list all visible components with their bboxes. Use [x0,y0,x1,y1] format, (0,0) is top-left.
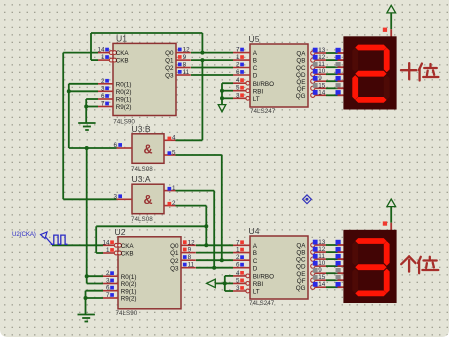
wire U3:B output down to U2.R0 inputs [86,148,88,276]
svg-text:9: 9 [183,54,187,61]
svg-text:4: 4 [236,77,240,84]
svg-text:LT: LT [253,96,260,103]
svg-text:B: B [253,250,257,257]
junction U1.R0(2) [67,89,71,93]
svg-text:U2: U2 [115,227,126,237]
power wire above tens display [390,13,392,29]
U5 pin QC 11 [311,65,315,69]
U3:B output pin 6 [117,147,133,149]
U5 pin QF 15 [311,86,315,90]
svg-text:7: 7 [236,47,240,54]
pin stub ones display power [390,223,392,231]
svg-text:CKB: CKB [116,58,129,65]
wire U1.Q1 to U5.B [191,59,233,61]
U4 pin A 7 [233,244,250,246]
svg-text:R0(2): R0(2) [116,89,132,96]
svg-text:7: 7 [236,239,240,246]
svg-text:6: 6 [113,142,117,149]
svg-text:U3:A: U3:A [132,174,151,184]
label ones digit (ge wei) [401,256,438,273]
svg-text:QD: QD [296,264,306,271]
U4 pin B 1 [233,252,250,254]
origin node marker (blue diamond) [303,195,312,204]
wire U2.Q0 to U4.A [196,244,233,246]
junction U2.Q3 branch to U3:A.1 [212,266,216,270]
ground below U1 [78,122,95,124]
U1 pin CKA 14 [98,52,113,54]
U2 pin R0(2) 3 [103,283,118,285]
tens display pin stubs [338,52,345,54]
wire U4 BI/RBO,RBI,LT tie to power [224,276,226,291]
wire U3:B input 5 from U2.Q2 [176,154,222,156]
svg-text:15: 15 [318,274,326,281]
U5 pin C 2 [233,67,250,69]
7-segment display tens (shows 2) [343,36,396,109]
U4 pin LT 3 [233,290,250,292]
svg-text:9: 9 [318,267,322,274]
U1 pin CKB 1 [98,59,113,61]
wire U2.Q2 to U4.C [196,259,233,261]
U4 pin QC 11 [311,257,315,261]
wire U5 BI/RBO,RBI,LT tie to power [221,83,223,104]
U5 pin LT 3 [233,97,250,99]
svg-text:3: 3 [113,193,117,200]
svg-text:4: 4 [172,135,176,142]
U4 pin QB 12 [311,250,315,254]
U5 pin A 7 [233,52,250,54]
svg-text:14: 14 [102,239,110,246]
svg-text:CKA: CKA [116,50,130,57]
svg-text:74LS08: 74LS08 [131,166,153,173]
svg-text:2: 2 [101,78,105,85]
svg-text:2: 2 [106,270,110,277]
junction U5.RBI tie [220,89,224,93]
wire U2.R9(1)/R9(2) to ground [85,291,87,315]
junction U1.R9(2) [84,105,88,109]
U2 pin R9(2) 7 [103,297,118,299]
svg-text:QA: QA [296,243,306,250]
wire U1.R9(1)/R9(2) to ground [85,99,87,123]
U2 pin CKA 14 [103,244,118,246]
U5 pin D 6 [233,74,250,76]
svg-text:R9(1): R9(1) [116,97,132,104]
U5 pin QD 10 [311,72,315,76]
svg-text:1: 1 [236,54,240,61]
svg-text:Q3: Q3 [170,265,179,272]
svg-text:5: 5 [172,149,176,156]
svg-text:R9(2): R9(2) [116,104,132,111]
U1 pin Q3 11 [176,74,191,76]
svg-text:Q2: Q2 [170,258,179,265]
pin stub tens display power [390,29,392,37]
AND gate U3:B body [132,134,164,164]
U1 pin Q2 8 [176,67,191,69]
svg-text:4: 4 [236,270,240,277]
svg-text:12: 12 [318,54,326,61]
svg-text:14: 14 [318,281,326,288]
svg-text:15: 15 [318,82,326,89]
svg-text:9: 9 [318,75,322,82]
svg-text:8: 8 [188,254,192,261]
wire U2.R0(1)/R0(2) from U3:A output [87,275,103,277]
svg-text:D: D [253,265,258,272]
counter U2 74LS90 body [118,237,181,309]
AND gate U3:A body [132,184,164,214]
svg-text:14: 14 [318,89,326,96]
svg-text:U4: U4 [249,226,260,236]
U5 pin BI/RBO 4 [233,82,250,84]
wire U1.Q2 to U5.C [191,67,233,69]
svg-text:LT: LT [253,289,260,296]
svg-text:11: 11 [183,69,190,76]
svg-text:U2(CKA): U2(CKA) [12,231,36,238]
svg-text:11: 11 [188,262,195,269]
svg-text:Q0: Q0 [165,50,174,57]
svg-text:12: 12 [318,246,326,253]
svg-text:2: 2 [236,62,240,69]
U3:B input pin 5 [164,154,176,156]
U1 pin R9(2) 7 [98,106,113,108]
wire U3:A input 2 from U2.Q0 [176,205,207,207]
svg-text:Q2: Q2 [165,65,174,72]
counter U1 74LS90 body [113,43,176,115]
svg-text:&: & [143,143,152,157]
svg-text:QG: QG [296,93,306,100]
svg-text:10: 10 [318,260,326,267]
svg-text:BI/RBO: BI/RBO [253,81,274,88]
junction Q1 branch to U3:B pin4 [200,58,204,62]
svg-text:QB: QB [296,250,305,257]
decoder U4 74LS247 body [250,236,308,299]
U5 pin RBI 5 [233,90,250,92]
junction U3:B output branch to U2 reset [85,146,89,150]
junction Q0/CKB-feedback [200,51,204,55]
wire U1.Q1 down to U3:B input 4 [201,60,203,140]
wires U5 outputs QA-QG to tens display [326,52,338,54]
ground below U2 [78,314,95,316]
U2 pin R0(1) 2 [103,275,118,277]
label tens digit (shi wei) [401,63,438,80]
svg-text:74LS08: 74LS08 [131,216,153,223]
U4 pin D 6 [233,267,250,269]
wire U3:A input 1 from U2.Q3 [176,190,215,192]
wire to power arrow left of U4 [215,282,225,284]
power arrow (down) feeding U5 LT/RBI/BI [218,105,226,112]
7-segment display ones (shows 3) [343,230,396,303]
svg-text:R9(2): R9(2) [121,296,137,303]
svg-text:6: 6 [101,93,105,100]
wire U2.Q3 to U4.D [196,267,233,269]
svg-text:6: 6 [236,69,240,76]
svg-text:D: D [253,73,258,80]
svg-text:RBI: RBI [253,281,264,288]
clock input wire to U2.CKA [52,244,103,246]
U2 pin Q2 8 [181,259,196,261]
svg-text:7: 7 [106,292,110,299]
svg-text:Q3: Q3 [165,73,174,80]
U4 pin RBI 5 [233,282,250,284]
svg-text:3: 3 [101,85,105,92]
logic state square ones power [383,221,387,225]
wire U1.CKB stub row [91,59,98,61]
U1 pin R9(1) 6 [98,98,113,100]
svg-text:6: 6 [106,285,110,292]
svg-text:U1: U1 [116,34,127,44]
U4 pin QD 10 [311,264,315,268]
svg-text:13: 13 [318,47,326,54]
svg-text:1: 1 [172,185,176,192]
clock waveform icon [51,235,68,244]
wire U3:A output to U1.CKA [63,198,116,200]
svg-text:QC: QC [296,257,306,264]
ones display pin stubs [338,244,345,246]
U2 pin Q1 9 [181,252,196,254]
junction U4.RBI tie [223,281,227,285]
wire U1.CKB feedback from Q0 (top horizontal) [91,32,202,34]
svg-text:R9(1): R9(1) [121,288,137,295]
svg-text:12: 12 [183,47,191,54]
wire U1.Q0 to U5.A [191,52,233,54]
svg-text:10: 10 [318,68,326,75]
U5 pin QB 12 [311,58,315,62]
wire U2.Q1 to U4.B [196,252,233,254]
svg-text:11: 11 [318,253,325,260]
svg-text:C: C [253,65,258,72]
U2 pin Q3 11 [181,267,196,269]
svg-text:5: 5 [236,85,240,92]
svg-text:QG: QG [296,285,306,292]
U4 pin QF 15 [311,278,315,282]
wire U3:B output row [69,147,117,149]
svg-text:3: 3 [236,92,240,99]
svg-text:R0(2): R0(2) [121,281,137,288]
svg-text:8: 8 [183,62,187,69]
svg-text:1: 1 [106,247,110,254]
U4 pin QA 13 [311,243,315,247]
svg-text:R0(1): R0(1) [121,274,137,281]
U4 pin QG 14 [311,285,315,289]
U1 pin Q0 12 [176,52,191,54]
svg-text:7: 7 [101,101,105,108]
U4 pin BI/RBO 4 [233,275,250,277]
U2 pin CKB 1 [103,252,118,254]
junction U2.Q2 branch to U3:B.5 [220,258,224,262]
junction U2.Q0 feedback node [204,224,208,228]
U4 pin C 2 [233,259,250,261]
junction U2.R0(1) [85,274,89,278]
svg-text:3: 3 [236,285,240,292]
wire U1.Q3 to U5.D [191,74,233,76]
junction U2.R9(2) [84,296,88,300]
svg-text:Q0: Q0 [170,243,179,250]
svg-text:QF: QF [297,86,306,93]
svg-text:1: 1 [101,54,105,61]
svg-text:74LS90: 74LS90 [116,310,138,317]
U5 pin QE 9 [311,79,315,83]
U1 pin R0(2) 3 [98,90,113,92]
svg-text:Q1: Q1 [165,58,174,65]
U1 pin R0(1) 2 [98,83,113,85]
svg-text:Q1: Q1 [170,250,179,257]
svg-text:CKA: CKA [121,243,135,250]
svg-text:C: C [253,258,258,265]
svg-text:R0(1): R0(1) [116,81,132,88]
svg-text:9: 9 [188,247,192,254]
U3:A input pin 2 [164,205,176,207]
junction U2.Q0 [204,243,208,247]
svg-text:3: 3 [106,278,110,285]
svg-text:QD: QD [296,72,306,79]
svg-text:13: 13 [318,239,326,246]
power arrow (left) feeding U4 LT/RBI/BI [207,279,216,287]
svg-text:U5: U5 [249,34,260,44]
svg-text:74LS247: 74LS247 [249,300,275,307]
U3:A output pin 3 [117,198,133,200]
svg-text:BI/RBO: BI/RBO [253,274,274,281]
svg-text:14: 14 [97,47,105,54]
U1 pin Q1 9 [176,59,191,61]
wire U2.CKB feedback horizontal [96,225,206,227]
svg-text:QE: QE [296,79,305,86]
U3:A input pin 1 [164,190,176,192]
power arrow VCC above ones display [387,199,396,207]
svg-text:2: 2 [172,200,176,207]
svg-text:74LS247: 74LS247 [250,108,276,115]
svg-text:5: 5 [236,277,240,284]
U5 pin QG 14 [311,93,315,97]
junction U5.LT tie [220,96,224,100]
U4 pin QE 9 [311,271,315,275]
U5 pin QA 13 [311,51,315,55]
svg-text:CKB: CKB [121,251,134,258]
logic state square tens power [383,28,387,32]
svg-text:2: 2 [236,254,240,261]
U2 pin R9(1) 6 [103,290,118,292]
U2 pin Q0 12 [181,244,196,246]
power wire above ones display [390,207,392,223]
U5 pin B 1 [233,59,250,61]
wires U4 outputs QA-QG to ones display [326,244,338,246]
svg-text:&: & [143,193,152,207]
svg-text:QB: QB [296,58,305,65]
svg-text:6: 6 [236,262,240,269]
svg-text:U3:B: U3:B [132,124,151,134]
power arrow VCC above tens display [387,5,396,13]
wire U1.R0(1)/R0(2) from U3:B output [68,84,70,148]
svg-text:11: 11 [318,61,325,68]
wire U1.CKA from U3:A output (left vertical) [63,52,98,54]
U3:B input pin 4 [164,139,176,141]
svg-text:12: 12 [188,239,196,246]
wire Q0 feedback down to U2.Q0 row [205,226,207,245]
svg-text:QC: QC [296,65,306,72]
svg-text:QA: QA [296,51,306,58]
svg-text:RBI: RBI [253,88,264,95]
svg-text:1: 1 [236,247,240,254]
svg-text:QF: QF [297,278,306,285]
decoder U5 74LS247 body [250,44,308,107]
svg-text:QE: QE [296,271,305,278]
svg-text:B: B [253,58,257,65]
